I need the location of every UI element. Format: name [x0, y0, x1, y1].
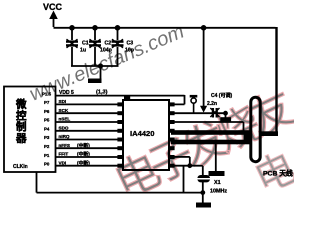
svg-text:VDD 5: VDD 5	[59, 90, 74, 96]
node R8 junction	[187, 163, 192, 168]
ground G4	[220, 117, 231, 122]
wire R3 to antenna	[175, 122, 244, 132]
svg-text:C2: C2	[105, 41, 112, 47]
wire VCC stem	[53, 17, 55, 27]
node rail-C2	[92, 25, 98, 31]
svg-text:VDI: VDI	[59, 160, 67, 165]
node rail-C1	[69, 25, 75, 31]
svg-text:P7: P7	[44, 100, 50, 105]
wire antenna feed B thick	[171, 140, 250, 145]
wire R1 to VDD row	[175, 95, 185, 104]
crystal X1	[197, 175, 211, 182]
wire CLK drop	[184, 166, 203, 193]
IC U1 IA4420 box	[123, 100, 169, 170]
svg-text:2.2n: 2.2n	[207, 101, 217, 107]
antenna feed junction blob	[244, 132, 250, 145]
svg-text:SCK: SCK	[59, 108, 69, 113]
wire R2 row (C4 net)	[175, 112, 226, 114]
svg-text:nFFS: nFFS	[59, 143, 70, 148]
capacitor C2	[89, 27, 112, 66]
svg-text:104p: 104p	[100, 48, 112, 54]
watermark 电子发烧友 big red diagonal	[108, 83, 302, 208]
svg-text:VCC: VCC	[43, 2, 63, 12]
wire row8 VDI	[56, 165, 119, 167]
svg-text:P4: P4	[44, 126, 50, 131]
wire R7 stub	[175, 156, 190, 158]
wire antenna to rail thick	[261, 131, 279, 136]
ground G3	[196, 203, 211, 208]
svg-text:P5: P5	[44, 118, 50, 123]
wire row4 SDO	[56, 130, 119, 132]
svg-text:nIRQ: nIRQ	[59, 134, 70, 139]
wire row3 nSEL	[56, 121, 119, 123]
wire gnd stem	[100, 66, 102, 79]
node C4-gnd	[223, 111, 228, 116]
ground G2	[209, 171, 225, 176]
svg-text:C1: C1	[82, 41, 89, 47]
svg-text:(中断): (中断)	[77, 142, 90, 149]
antenna stub component (bar+circle)	[190, 96, 198, 113]
capacitor C3	[112, 27, 134, 66]
watermark www.elecfans.com diagonal pink	[26, 21, 187, 106]
svg-text:X1: X1	[214, 180, 221, 186]
svg-text:PCB 天线: PCB 天线	[263, 169, 293, 178]
svg-text:控: 控	[16, 109, 27, 122]
svg-text:P2: P2	[44, 144, 50, 149]
svg-text:(中断): (中断)	[77, 159, 90, 166]
VCC branch arrowhead	[200, 106, 207, 113]
svg-text:SDI: SDI	[59, 99, 67, 104]
svg-text:nSEL: nSEL	[59, 117, 71, 122]
svg-text:C4 (可调): C4 (可调)	[211, 92, 232, 99]
chip top VDD pin nub	[124, 96, 130, 100]
node crystal-CLK junction	[200, 190, 205, 195]
svg-text:C3: C3	[127, 41, 134, 47]
svg-text:制: 制	[16, 120, 27, 133]
wire antenna feed A thick	[171, 130, 250, 135]
svg-text:1u: 1u	[80, 48, 86, 54]
svg-text:SDO: SDO	[59, 125, 69, 130]
svg-text:10p: 10p	[125, 48, 134, 54]
wire right rail down	[275, 27, 277, 133]
wire CLK bottom run	[37, 172, 184, 193]
wire row5 nIRQ	[56, 139, 119, 141]
capacitor C1	[66, 27, 89, 66]
wire C4 gnd stem	[225, 113, 227, 118]
wire top rail	[54, 27, 276, 29]
PCB antenna loop	[251, 97, 260, 162]
wire VCC branch down	[203, 27, 205, 107]
svg-text:CLKin: CLKin	[13, 164, 28, 170]
node rail-branch	[201, 25, 207, 31]
wire crystal bottom	[202, 182, 204, 203]
svg-text:P0: P0	[44, 162, 50, 167]
wire R7-R8 link	[189, 157, 191, 166]
VCC arrow	[49, 11, 58, 20]
wire row1 SDI	[56, 103, 119, 105]
svg-text:P6: P6	[44, 109, 50, 114]
svg-text:P3: P3	[44, 135, 50, 140]
chip right pin nubs	[169, 102, 175, 167]
ground G1	[88, 79, 102, 84]
wire row7 FFIT	[56, 156, 119, 158]
watermark fragment bottom-right red	[248, 145, 303, 202]
svg-text:(1,3): (1,3)	[96, 90, 108, 96]
svg-text:FFIT: FFIT	[59, 152, 69, 157]
svg-text:10MHz: 10MHz	[210, 189, 227, 195]
svg-text:微: 微	[15, 98, 27, 111]
microcontroller box U2	[4, 87, 56, 173]
node rail-C3	[115, 25, 121, 31]
svg-text:IA4420: IA4420	[130, 129, 155, 138]
capacitor C4 trimmer	[210, 108, 219, 118]
node cap-gnd junction	[98, 63, 103, 68]
svg-text:P1: P1	[44, 153, 50, 158]
svg-text:器: 器	[15, 132, 27, 144]
wire capacitor bottom rail	[71, 65, 119, 67]
svg-text:P1.5: P1.5	[42, 92, 52, 97]
wire R8 to crystal	[175, 166, 203, 176]
svg-text:(中断): (中断)	[77, 151, 90, 158]
wire G2 stem from feed B	[215, 143, 217, 172]
wire row6 nINT	[56, 147, 119, 149]
wire row2 SCK	[56, 112, 119, 114]
chip left pin nubs	[117, 102, 123, 167]
wire row0 VDD	[56, 95, 185, 97]
